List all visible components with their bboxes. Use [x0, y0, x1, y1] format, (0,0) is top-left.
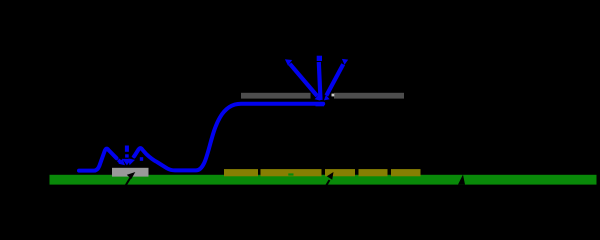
- blue right hump and tail to S-curve and plateau: [134, 104, 323, 171]
- blue transcription arrow right head: [342, 59, 348, 65]
- blue center stub: [125, 146, 129, 152]
- white dot at gap: [332, 94, 335, 97]
- promoter gray bar left segment: [241, 93, 311, 99]
- exon olive box 4: [359, 169, 388, 176]
- blue dashed arrow right (down-left): [133, 155, 135, 158]
- promoter gray bar right segment: [334, 93, 404, 99]
- blue factor squiggle: left tail and left hump: [79, 149, 117, 171]
- blue tail below plateau end: [316, 103, 325, 106]
- enhancer gray box: [112, 168, 149, 177]
- blue transcription arrow middle shaft: [319, 62, 321, 100]
- blue transcription arrow left shaft: [290, 64, 317, 96]
- green notch artifact on exon box 2: [288, 173, 293, 175]
- blue dashed arrow left (down-right): [118, 160, 120, 162]
- black annotation arrow to enhancer box: [121, 172, 135, 193]
- blue transcription arrow right shaft: [326, 64, 343, 95]
- blue transcription arrow left head: [285, 59, 292, 65]
- blue transcription arrow left base arrowhead: [315, 95, 321, 101]
- black annotation arrow to intron (green bar): [455, 175, 465, 200]
- black annotation arrow to exon gap: [320, 172, 334, 196]
- blue dashed arrow center (down): [125, 154, 129, 157]
- exon olive box 1: [224, 169, 258, 176]
- exon olive box 2: [261, 169, 322, 176]
- blue transcription arrow right base arrowhead: [324, 95, 330, 101]
- blue blob below right hump: [140, 157, 143, 161]
- blue transcription arrow middle head: [317, 56, 322, 61]
- exon olive box 5: [391, 169, 421, 176]
- DNA green bar: [50, 175, 597, 185]
- exon olive box 3: [325, 169, 355, 176]
